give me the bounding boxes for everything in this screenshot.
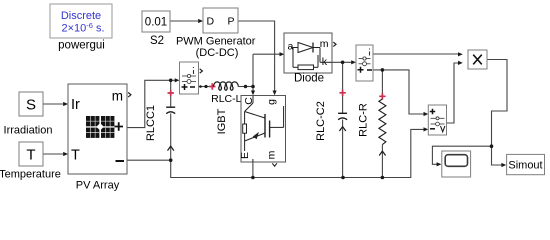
svg-text:T: T (26, 147, 35, 164)
svg-text:D: D (207, 16, 215, 28)
svg-text:Diode: Diode (294, 73, 324, 85)
svg-text:Ir: Ir (71, 97, 80, 113)
svg-text:RLC-R: RLC-R (358, 103, 370, 137)
svg-text:P: P (227, 16, 234, 28)
svg-text:RLC-L: RLC-L (211, 93, 242, 105)
svg-text:0.01: 0.01 (145, 17, 167, 29)
svg-text:Irradiation: Irradiation (4, 125, 53, 137)
svg-text:S: S (26, 97, 36, 114)
svg-text:2×10-6 s.: 2×10-6 s. (61, 21, 104, 35)
svg-text:E: E (239, 152, 251, 159)
svg-text:T: T (71, 148, 80, 164)
svg-text:powergui: powergui (58, 40, 105, 52)
svg-text:Temperature: Temperature (0, 169, 61, 181)
svg-text:IGBT: IGBT (216, 108, 228, 134)
svg-text:g: g (266, 99, 278, 105)
svg-text:RLCC1: RLCC1 (145, 105, 157, 141)
svg-text:RLC-C2: RLC-C2 (315, 101, 327, 141)
svg-text:m: m (266, 150, 278, 159)
svg-text:PV Array: PV Array (76, 180, 120, 192)
svg-text:m: m (320, 38, 329, 50)
svg-text:Simout: Simout (508, 160, 542, 172)
svg-text:(DC-DC): (DC-DC) (196, 47, 239, 59)
svg-text:Discrete: Discrete (61, 10, 101, 22)
svg-text:PWM Generator: PWM Generator (176, 36, 256, 48)
svg-text:S2: S2 (150, 35, 164, 47)
svg-text:m: m (112, 89, 123, 104)
